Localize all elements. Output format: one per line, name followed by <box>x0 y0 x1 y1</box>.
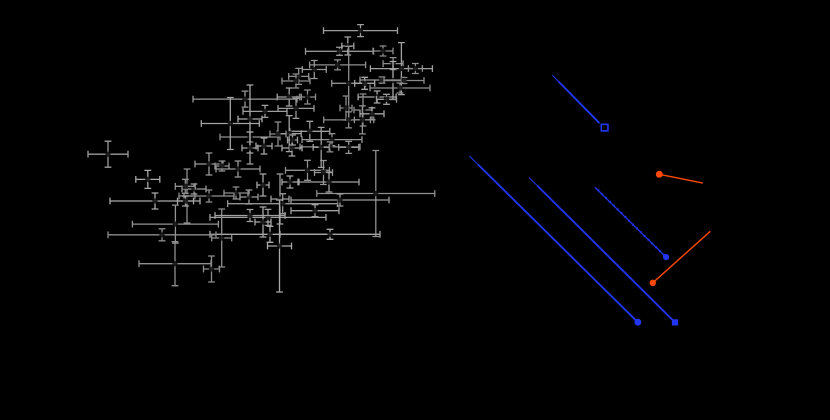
errorbar point P71 <box>268 200 292 292</box>
blue track line T2 <box>469 156 636 321</box>
errorbar point P47 <box>288 135 298 145</box>
errorbar point P34 <box>286 160 330 180</box>
blue filled-circle marker M4 <box>663 254 669 260</box>
errorbar point P62 <box>210 209 326 225</box>
errorbar point P65 <box>280 229 380 239</box>
errorbar point P40 <box>193 91 297 107</box>
errorbar point P3 <box>342 37 354 55</box>
errorbar point P59 <box>110 193 200 209</box>
errorbar point P11 <box>384 77 424 84</box>
errorbar point P10 <box>360 77 404 84</box>
errorbar point P30 <box>302 134 362 146</box>
orange track line T5 <box>659 174 703 183</box>
errorbar point P39 <box>270 122 286 146</box>
errorbar point P7 <box>370 43 432 95</box>
errorbar point P20 <box>289 68 309 84</box>
errorbar point P75 <box>88 141 128 167</box>
errorbar point P18 <box>360 108 384 120</box>
errorbar point P69 <box>291 205 339 217</box>
errorbar point P73 <box>204 256 220 282</box>
errorbar point P72 <box>255 207 271 237</box>
errorbar point P6 <box>310 60 366 70</box>
errorbar point P26 <box>324 112 374 128</box>
errorbar point P38 <box>220 132 280 142</box>
errorbar point P5 <box>383 58 403 70</box>
errorbar point P9 <box>381 62 405 100</box>
errorbar point P15 <box>370 83 430 93</box>
errorbar point P23 <box>277 88 301 106</box>
errorbar point P50 <box>216 161 260 177</box>
errorbar point P66 <box>108 229 216 241</box>
errorbar point P55 <box>282 176 298 188</box>
errorbar point P67 <box>212 209 232 267</box>
errorbar point P37 <box>317 151 435 237</box>
errorbar point P33 <box>339 141 359 153</box>
blue filled-square marker M3 <box>672 319 678 325</box>
errorbar point P70 <box>215 210 285 222</box>
blue dotted track line T4 <box>595 187 664 255</box>
errorbar point P64 <box>210 226 330 242</box>
errorbar point P2 <box>306 47 374 55</box>
blue filled-circle marker M2 <box>635 319 642 326</box>
errorbar point P46 <box>242 132 258 164</box>
errorbar point P61 <box>228 194 338 214</box>
errorbar point P76 <box>136 170 160 188</box>
errorbar point P51 <box>179 169 195 223</box>
errorbar point P57 <box>224 187 248 199</box>
errorbar point P43 <box>243 105 287 117</box>
errorbar point P45 <box>256 138 272 154</box>
errorbar point P21 <box>302 61 326 79</box>
errorbar point P56 <box>240 190 258 204</box>
errorbar point P58 <box>184 190 234 202</box>
blue track line T1 <box>552 75 599 123</box>
errorbar point P60 <box>178 196 194 206</box>
errorbar point P63 <box>132 205 218 243</box>
errorbar point P77 <box>175 179 195 193</box>
blue open-square marker M1 <box>601 124 608 131</box>
errorbar point P19 <box>340 96 352 120</box>
errorbar point P1 <box>324 25 398 37</box>
errorbar point P42 <box>201 98 259 150</box>
errorbar point P13 <box>355 77 375 89</box>
orange track line T6 <box>653 231 711 282</box>
errorbar point P48 <box>195 153 223 175</box>
errorbar point P27 <box>354 106 370 134</box>
errorbar point P44 <box>282 140 302 156</box>
errorbar point P8 <box>408 64 422 74</box>
errorbar point P28 <box>290 121 330 141</box>
errorbar point P54 <box>271 174 289 224</box>
orange filled-circle marker M5 <box>656 171 663 178</box>
errorbar point P36 <box>299 172 359 192</box>
errorbar point P17 <box>354 94 372 126</box>
errorbar point P12 <box>332 46 366 120</box>
blue track line T3 <box>529 178 674 321</box>
errorbar point P31 <box>300 142 360 152</box>
errorbar point P22 <box>282 74 310 88</box>
errorbar point P16 <box>377 94 397 104</box>
errorbar point P29 <box>277 116 301 152</box>
errorbar point P41 <box>238 85 262 153</box>
orange filled-circle marker M6 <box>650 280 656 286</box>
errorbar point P35 <box>315 161 333 185</box>
errorbar point P68 <box>291 194 389 206</box>
errorbar point P53 <box>257 174 269 196</box>
errorbar point P74 <box>139 242 211 286</box>
errorbar point P32 <box>313 127 329 167</box>
errorbar point P4 <box>373 46 393 56</box>
errorbar point P14 <box>358 91 396 103</box>
errorbar point P25 <box>278 98 314 118</box>
errorbar point P24 <box>300 90 316 104</box>
errorbar point P49 <box>215 161 229 171</box>
errorbar point P52 <box>182 184 206 194</box>
